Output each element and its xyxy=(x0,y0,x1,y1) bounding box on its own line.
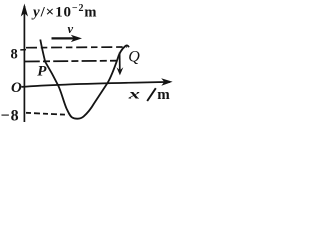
svg-text:8: 8 xyxy=(11,47,18,63)
svg-text:Q: Q xyxy=(128,49,140,66)
svg-text:v: v xyxy=(68,22,74,36)
svg-text:−8: −8 xyxy=(1,107,20,124)
svg-text:y/×10−2m: y/×10−2m xyxy=(31,3,97,21)
svg-text:x: x xyxy=(128,86,140,102)
svg-text:O: O xyxy=(11,80,22,96)
svg-text:m: m xyxy=(157,87,170,103)
svg-text:P: P xyxy=(37,63,47,79)
